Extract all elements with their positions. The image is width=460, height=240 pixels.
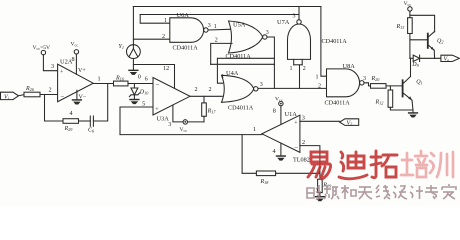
svg-text:CD4011A: CD4011A — [322, 38, 348, 45]
svg-text:Y1: Y1 — [119, 44, 124, 50]
watermark char he — [341, 185, 356, 199]
watermark char jia — [442, 184, 456, 199]
resistor R13 — [396, 18, 413, 34]
svg-text:1: 1 — [290, 66, 293, 72]
nand gate U7A vertical — [277, 19, 347, 60]
svg-text:+: + — [155, 107, 159, 113]
svg-text:−: − — [156, 81, 160, 89]
terminal Vcc=5V — [33, 45, 51, 55]
op-amp U1A mirrored — [262, 111, 310, 164]
svg-text:Q1: Q1 — [416, 80, 422, 86]
wire R20 to Q1 base — [386, 85, 403, 87]
ground U1A — [276, 155, 286, 160]
resistor R19 — [318, 179, 332, 192]
svg-text:R13: R13 — [396, 24, 405, 30]
svg-text:CD4011A: CD4011A — [325, 99, 351, 106]
svg-text:C6: C6 — [88, 128, 95, 134]
svg-text:Vcc: Vcc — [180, 127, 188, 133]
wire U5A out down — [267, 37, 274, 88]
svg-text:Q2: Q2 — [437, 39, 443, 45]
wire U1A pin4 — [280, 143, 282, 155]
nand gate U6A — [170, 12, 208, 52]
svg-text:Vo: Vo — [444, 57, 450, 63]
svg-text:12: 12 — [163, 65, 169, 72]
svg-text:D9: D9 — [411, 62, 419, 68]
wire D9 to Vo tag — [420, 57, 441, 59]
ground Q1 — [408, 110, 418, 118]
wire Q1 emitter down — [412, 100, 413, 110]
wire U6A out to U5A in1 — [208, 28, 232, 31]
output tag V2 — [340, 119, 359, 127]
watermark char she2 — [393, 186, 407, 199]
wire second loop — [140, 14, 299, 16]
terminal Vcc (U2A pin 8) — [71, 42, 79, 55]
svg-text:2: 2 — [195, 86, 198, 93]
svg-text:V+: V+ — [78, 68, 86, 74]
svg-text:U5A: U5A — [233, 21, 246, 28]
watermark char she — [307, 185, 321, 199]
svg-text:2: 2 — [303, 66, 306, 72]
svg-text:2: 2 — [215, 37, 218, 43]
svg-text:U7A: U7A — [277, 19, 290, 26]
resistor R20 — [371, 76, 387, 88]
wire lamp to U3A pin12 — [133, 65, 174, 89]
svg-text:R26: R26 — [25, 86, 35, 92]
watermark char xian — [376, 185, 390, 199]
wire Vcc down to R13 — [409, 11, 411, 18]
svg-text:8: 8 — [273, 108, 276, 115]
svg-text:3: 3 — [266, 30, 269, 36]
svg-text:CD4011A: CD4011A — [228, 105, 254, 112]
terminal Vcc top right — [404, 1, 413, 11]
output tag Vo — [441, 55, 460, 63]
svg-text:2: 2 — [302, 139, 305, 146]
svg-text:8: 8 — [72, 56, 75, 63]
watermark char di — [339, 152, 367, 179]
wire lamp node to U6A pin2 — [133, 38, 169, 40]
wire pin8 — [75, 54, 77, 74]
wire Vcc branch to Q2 collector — [410, 15, 435, 32]
svg-text:0: 0 — [138, 74, 141, 81]
wire R26 to U2A pin2 — [40, 94, 58, 96]
svg-text:6: 6 — [145, 76, 148, 83]
svg-text:−: − — [294, 144, 298, 152]
resistor R12 — [375, 86, 393, 110]
watermark char pei — [401, 151, 427, 177]
svg-text:CD4011A: CD4011A — [226, 53, 252, 60]
ground R19 — [315, 196, 325, 201]
wire U3A pin3 — [173, 105, 204, 122]
wire U2A output — [93, 83, 113, 85]
svg-text:Vcc: Vcc — [404, 1, 412, 7]
wire R16 to U3A pin6 — [128, 83, 153, 85]
svg-text:1: 1 — [164, 18, 167, 24]
svg-text:U1A: U1A — [285, 111, 298, 118]
svg-text:R17: R17 — [207, 109, 217, 115]
svg-text:R29: R29 — [64, 126, 74, 132]
nand gate U8A — [325, 63, 364, 106]
svg-text:2: 2 — [162, 34, 165, 40]
wire R13 to base node and D9 — [409, 34, 412, 59]
svg-text:3: 3 — [51, 63, 54, 70]
ground D10 — [129, 99, 139, 104]
input tag Vi — [1, 92, 19, 100]
op-amp U2A — [58, 58, 94, 101]
svg-text:Vi: Vi — [4, 94, 10, 100]
wire U1A pin3 to V2 tag — [300, 120, 340, 122]
svg-text:1: 1 — [214, 24, 217, 30]
watermark char tuo — [371, 151, 397, 178]
wire C6 to output node — [93, 84, 107, 122]
svg-text:3: 3 — [363, 76, 366, 82]
terminal Vcc (U3A) — [180, 120, 188, 133]
wire U4A out to U8A in2 — [258, 87, 327, 89]
wire top loop down to U8A pin1 — [321, 7, 327, 77]
svg-text:CD4011A: CD4011A — [173, 44, 199, 51]
svg-text:3: 3 — [168, 121, 171, 128]
svg-text:R18: R18 — [260, 179, 270, 185]
wire R29 to C6 — [79, 120, 91, 122]
svg-text:4: 4 — [70, 110, 73, 117]
wire line A to U4A pin1 — [217, 58, 274, 83]
watermark char ji — [410, 186, 423, 199]
wire node to zener — [133, 84, 135, 89]
ground U2A — [72, 99, 82, 104]
svg-text:3: 3 — [293, 14, 296, 20]
svg-text:4: 4 — [273, 148, 276, 155]
wire Q1 collector up — [410, 58, 412, 76]
wire U3A pin5 — [120, 107, 153, 135]
wire Q2 emitter down — [433, 50, 435, 58]
resistor R29 — [63, 119, 79, 132]
svg-text:1: 1 — [316, 75, 319, 81]
wire U3A output — [190, 95, 222, 97]
watermark char pin — [324, 185, 339, 199]
svg-text:R20: R20 — [371, 76, 381, 82]
resistor R18 — [256, 171, 275, 185]
svg-text:R16: R16 — [115, 76, 125, 82]
transistor Q2 — [428, 31, 444, 50]
wire R19 to ground — [319, 193, 321, 196]
wire base node to Q2 — [410, 39, 428, 41]
svg-text:2: 2 — [209, 86, 212, 93]
svg-text:R12: R12 — [375, 100, 384, 106]
wire U5A pin2 feedback — [211, 43, 232, 64]
wire to U6A pin1 — [140, 15, 170, 24]
svg-text:D10: D10 — [139, 90, 149, 96]
wire output down to bottom row — [242, 135, 256, 174]
diode D9 — [410, 55, 420, 68]
wire U1A output feedback long — [120, 134, 262, 136]
svg-text:U8A: U8A — [343, 63, 356, 70]
wire feedback left — [45, 95, 64, 122]
svg-text:Vcc=5V: Vcc=5V — [33, 45, 51, 51]
sounder Y1 — [119, 44, 141, 59]
wire line B from U4A out — [211, 63, 275, 65]
watermark char tian — [358, 187, 372, 199]
wire U1A pin2 — [300, 146, 320, 180]
svg-text:1: 1 — [253, 126, 256, 133]
wire lamp top to top loop — [132, 7, 134, 45]
wire Vi to R26 — [19, 95, 25, 96]
svg-text:3: 3 — [208, 23, 211, 29]
wire U8A out — [364, 83, 371, 86]
wire zener to ground — [133, 95, 135, 99]
watermark char yi — [308, 152, 331, 179]
svg-text:U4A: U4A — [226, 70, 239, 77]
wire U7A output up — [298, 7, 300, 20]
op-amp U3A — [153, 78, 190, 123]
watermark char zhuan — [425, 185, 438, 199]
svg-text:2: 2 — [49, 87, 52, 94]
nor-style gate U5A — [226, 21, 267, 60]
svg-text:3: 3 — [260, 82, 263, 88]
svg-text:TL082: TL082 — [293, 157, 310, 164]
svg-text:+: + — [294, 120, 298, 126]
capacitor C6 — [88, 116, 95, 134]
transistor Q1 — [403, 77, 423, 101]
ground lamp — [128, 70, 138, 75]
wire U7A input pins — [294, 59, 303, 88]
wire U2A V- down — [76, 90, 78, 99]
svg-text:1: 1 — [98, 76, 101, 83]
nor-style gate U4A — [222, 70, 259, 112]
terminal Vcc (U1A pin8) — [275, 97, 283, 106]
svg-text:1: 1 — [221, 74, 224, 80]
svg-text:−: − — [60, 93, 64, 101]
svg-text:Vcc: Vcc — [71, 42, 79, 48]
svg-text:U6A: U6A — [177, 12, 190, 19]
svg-text:V2: V2 — [347, 120, 353, 126]
wire U1A pin8 — [280, 106, 282, 125]
wire top loop — [133, 6, 321, 8]
svg-text:2: 2 — [318, 84, 321, 90]
svg-text:5: 5 — [142, 101, 145, 108]
resistor R17 — [202, 96, 217, 122]
wire R18 to pin2 node — [276, 172, 320, 174]
svg-text:3: 3 — [302, 115, 305, 122]
wire lamp bottom — [132, 59, 134, 70]
wire Vcc=5V to U2A pin3 — [43, 55, 57, 71]
resistor R16 — [114, 76, 129, 86]
zener diode D10 — [129, 88, 149, 97]
watermark char xun — [430, 152, 453, 177]
resistor R26 — [24, 86, 40, 97]
wire R12 bottom to emitter — [390, 109, 413, 111]
